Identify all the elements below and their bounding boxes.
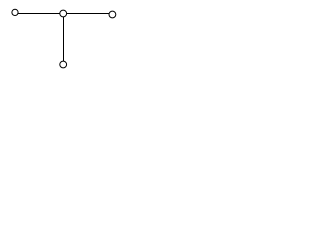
node: center junction	[60, 10, 67, 17]
node: bottom open terminal	[60, 61, 67, 68]
node: left open terminal	[12, 9, 18, 15]
node: right open terminal	[109, 11, 116, 18]
wire: vertical branch from junction down to bottom terminal	[63, 14, 65, 65]
wire: horizontal net from left terminal through junction to right terminal	[15, 13, 112, 15]
